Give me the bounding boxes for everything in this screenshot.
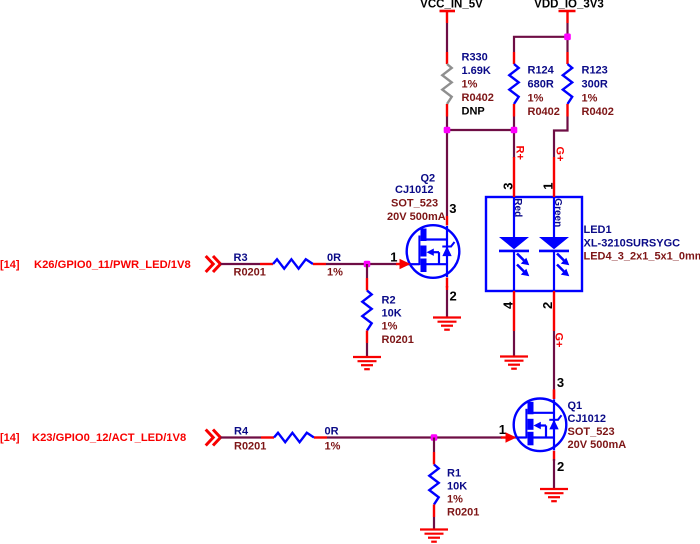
junction node R124 bottom	[511, 127, 518, 134]
svg-text:R0201: R0201	[447, 507, 479, 519]
svg-text:R4: R4	[234, 426, 249, 438]
wire node to Q1 gate	[434, 436, 502, 438]
svg-text:R0402: R0402	[582, 106, 614, 118]
svg-text:R0201: R0201	[382, 334, 414, 346]
ground Q2 source	[433, 318, 461, 330]
svg-text:1%: 1%	[582, 93, 598, 105]
svg-text:Green: Green	[552, 198, 563, 227]
svg-text:[14]: [14]	[0, 432, 20, 444]
svg-text:Red: Red	[512, 198, 523, 217]
svg-text:1%: 1%	[528, 93, 544, 105]
svg-text:R0201: R0201	[234, 441, 266, 453]
label LED1 XL-3210SURSYGC LED4_3_2x1_5x1_0mm	[584, 224, 700, 263]
off-page connector K23	[206, 430, 221, 446]
transistor Q2	[407, 216, 460, 288]
resistor R124	[509, 52, 518, 117]
label R1 value 10K 1% R0201	[447, 468, 479, 519]
svg-text:[14]: [14]	[0, 259, 20, 271]
resistor R2	[362, 278, 371, 343]
svg-text:1: 1	[540, 183, 555, 190]
ground R1	[420, 530, 448, 542]
label R123 value 300R 1% R0402	[582, 65, 614, 119]
svg-text:K23/GPIO0_12/ACT_LED/1V8: K23/GPIO0_12/ACT_LED/1V8	[32, 432, 186, 444]
pin LED1-1 top right	[553, 157, 555, 197]
svg-text:LED4_3_2x1_5x1_0mm: LED4_3_2x1_5x1_0mm	[584, 251, 700, 263]
label R124 value 680R 1% R0402	[528, 65, 560, 119]
label R2 value 10K 1% R0201	[382, 295, 414, 347]
wire Q1 drain stub	[553, 390, 555, 399]
LED LED1 Green element	[539, 197, 569, 291]
svg-text:G+: G+	[553, 333, 565, 348]
label Q1 CJ1012 SOT_523 20V 500mA	[568, 400, 627, 451]
wire node to Q2 drain	[446, 130, 448, 216]
off-page connector K26	[206, 256, 221, 272]
pin Q2 gate arrow	[396, 259, 411, 269]
svg-text:4: 4	[500, 301, 515, 309]
svg-text:VCC_IN_5V: VCC_IN_5V	[420, 0, 483, 11]
wire R4 to node	[327, 436, 434, 438]
svg-text:1%: 1%	[462, 79, 478, 91]
label R330 value 1.69K 1% R0402 DNP	[462, 52, 494, 118]
label R4 value 0R 1% R0201	[234, 426, 341, 453]
wire VDD_IO_3V3 vertical	[566, 23, 568, 52]
svg-text:20V 500mA: 20V 500mA	[387, 211, 446, 223]
wire node to node horizontal	[447, 129, 514, 131]
resistor R4	[261, 433, 327, 442]
svg-text:3: 3	[500, 183, 515, 190]
svg-text:2: 2	[540, 302, 555, 309]
svg-text:Q1: Q1	[568, 400, 583, 412]
svg-text:3: 3	[449, 201, 456, 216]
wire VDD node to R124 top	[514, 37, 568, 52]
svg-text:10K: 10K	[382, 308, 402, 320]
net name K26/GPIO0_11/PWR_LED/1V8	[0, 259, 191, 271]
svg-text:R1: R1	[447, 468, 461, 480]
svg-text:1: 1	[390, 249, 397, 264]
svg-text:CJ1012: CJ1012	[568, 413, 607, 425]
net name K23/GPIO0_12/ACT_LED/1V8	[0, 432, 186, 444]
pin LED1-3 top left	[513, 157, 515, 197]
svg-text:DNP: DNP	[462, 106, 485, 118]
wire LED pin4 to ground	[513, 331, 515, 356]
LED LED1 Red element	[499, 197, 529, 291]
svg-text:CJ1012: CJ1012	[395, 184, 434, 196]
svg-text:1.69K: 1.69K	[462, 65, 491, 77]
svg-text:Q2: Q2	[421, 173, 436, 185]
label R3 value 0R 1% R0201	[234, 252, 344, 279]
pin Q1 gate arrow	[501, 432, 517, 442]
svg-text:R0201: R0201	[234, 267, 266, 279]
junction node R330/R124 left	[444, 127, 451, 134]
wire node to Q2 gate	[367, 263, 397, 265]
resistor R330	[442, 52, 451, 117]
svg-text:1%: 1%	[327, 267, 343, 279]
svg-text:680R: 680R	[528, 79, 554, 91]
svg-text:K26/GPIO0_11/PWR_LED/1V8: K26/GPIO0_11/PWR_LED/1V8	[34, 259, 191, 271]
wire Q2 source to ground	[446, 286, 448, 290]
wire R2 to ground	[366, 343, 368, 357]
svg-text:10K: 10K	[447, 481, 467, 493]
svg-text:0R: 0R	[327, 252, 341, 264]
svg-text:1: 1	[499, 422, 506, 437]
pin LED1-4 bottom left	[513, 291, 515, 331]
svg-text:1%: 1%	[325, 441, 341, 453]
wire VCC_IN_5V vertical	[446, 23, 448, 52]
svg-text:R0402: R0402	[462, 92, 494, 104]
ground Q1 source	[540, 489, 568, 501]
svg-text:300R: 300R	[582, 79, 608, 91]
transistor Q1	[514, 389, 567, 461]
svg-text:R330: R330	[462, 52, 488, 64]
power symbol VDD_IO_3V3	[534, 0, 604, 23]
junction node R3/R2	[364, 261, 371, 268]
wire R3 to node	[326, 263, 367, 265]
svg-text:LED1: LED1	[584, 224, 612, 236]
wire node down to R2	[366, 264, 368, 278]
wire node down to R1	[433, 438, 435, 453]
resistor R1	[429, 452, 438, 517]
wire R124 bottom to node	[513, 117, 515, 132]
svg-text:R123: R123	[582, 65, 608, 77]
wire R123 to LED pin1 (net G+)	[554, 117, 568, 158]
svg-text:SOT_523: SOT_523	[568, 426, 615, 438]
ground R2	[353, 357, 381, 369]
wire node to LED pin3 (net R+)	[513, 130, 515, 158]
power symbol VCC_IN_5V	[420, 0, 483, 23]
svg-text:2: 2	[450, 288, 457, 303]
pin LED1-2 bottom right	[553, 291, 555, 331]
LED package LED1 outline	[486, 197, 582, 291]
wire R330 bottom to node	[446, 117, 448, 132]
svg-text:VDD_IO_3V3: VDD_IO_3V3	[534, 0, 604, 11]
svg-text:G+: G+	[554, 147, 566, 162]
svg-text:XL-3210SURSYGC: XL-3210SURSYGC	[584, 238, 681, 250]
wire row2 left	[221, 436, 262, 438]
svg-text:SOT_523: SOT_523	[391, 198, 438, 210]
label Q2 CJ1012 SOT_523 20V 500mA	[387, 173, 446, 224]
svg-text:R0402: R0402	[528, 106, 560, 118]
svg-text:2: 2	[557, 459, 564, 474]
resistor R123	[563, 52, 572, 117]
svg-text:1%: 1%	[382, 321, 398, 333]
svg-text:R+: R+	[514, 146, 526, 160]
svg-text:3: 3	[557, 375, 564, 390]
wire LED pin2 to Q1 drain (net G+)	[553, 331, 555, 390]
junction node R4/R1	[431, 434, 438, 441]
resistor R3	[260, 259, 326, 268]
svg-text:0R: 0R	[325, 426, 339, 438]
svg-text:1%: 1%	[447, 494, 463, 506]
svg-text:R124: R124	[528, 65, 555, 77]
junction node VDD	[564, 34, 571, 41]
svg-text:R2: R2	[382, 295, 396, 307]
wire R1 to ground	[433, 517, 435, 530]
ground LED pin4	[500, 357, 528, 369]
svg-text:20V 500mA: 20V 500mA	[568, 439, 627, 451]
svg-text:R3: R3	[234, 252, 248, 264]
wire row1 left	[221, 263, 261, 265]
wire Q1 source to ground	[553, 459, 555, 489]
